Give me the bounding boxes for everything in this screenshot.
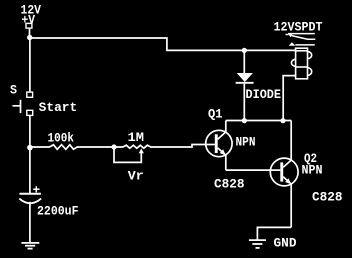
wire relay coil to rail — [283, 76, 295, 121]
capacitor C1 curved plate — [19, 199, 41, 204]
wire Q1 emitter to Q2 base — [226, 169, 270, 171]
potentiometer VR 1M — [114, 145, 206, 149]
svg-text:12VSPDT: 12VSPDT — [274, 20, 323, 34]
svg-text:Q1: Q1 — [208, 107, 223, 121]
svg-text:2200uF: 2200uF — [37, 205, 79, 219]
node B junction — [111, 144, 116, 149]
ground right — [249, 240, 266, 248]
node supply junction — [27, 35, 32, 40]
diode D1 — [236, 48, 254, 123]
svg-text:GND: GND — [274, 237, 297, 251]
svg-text:C828: C828 — [312, 190, 343, 204]
terminal square pad — [26, 23, 32, 28]
relay RL1 contact arrow 1 tail — [286, 34, 289, 36]
wire Q2 emitter to ground — [257, 227, 291, 239]
wire top rail — [30, 38, 296, 50]
svg-text:NPN: NPN — [236, 136, 256, 150]
wire collector rail — [226, 120, 291, 122]
wire capacitor to ground — [29, 202, 31, 243]
svg-text:S: S — [10, 84, 17, 98]
switch S pushbutton — [12, 92, 32, 115]
wire supply to switch — [29, 38, 31, 92]
svg-text:Start: Start — [39, 101, 77, 115]
VR wiper arrow — [139, 149, 144, 154]
relay RL1 contact arrow 2 — [289, 42, 296, 45]
svg-text:NPN: NPN — [302, 164, 323, 178]
wire node A to capacitor — [29, 147, 31, 194]
relay RL1 contact NC line — [288, 33, 315, 35]
transistor Q1 — [206, 121, 232, 171]
svg-text:DIODE: DIODE — [246, 88, 282, 102]
svg-text:Vr: Vr — [128, 169, 144, 183]
relay RL1 contact NO line — [295, 44, 314, 46]
svg-text:100k: 100k — [48, 131, 75, 145]
capacitor C1 2200uF plus sign — [33, 186, 39, 192]
ground left — [21, 243, 39, 249]
wire VR wiper loop — [114, 148, 141, 163]
relay RL1 contact arrow 1 — [288, 33, 293, 37]
transistor Q2 — [270, 121, 298, 228]
node relay junction — [280, 118, 285, 123]
relay RL1 coil body — [296, 48, 308, 79]
resistor R1 100k — [30, 145, 114, 150]
svg-text:1M: 1M — [128, 131, 145, 145]
capacitor C1 top plate — [20, 193, 41, 195]
node A junction — [27, 145, 33, 151]
relay RL1 coil winding — [291, 51, 311, 76]
svg-text:C828: C828 — [214, 177, 245, 191]
wire terminal stub — [29, 28, 31, 38]
wire switch to node A — [29, 115, 31, 147]
relay RL1 contact arm — [292, 36, 316, 40]
